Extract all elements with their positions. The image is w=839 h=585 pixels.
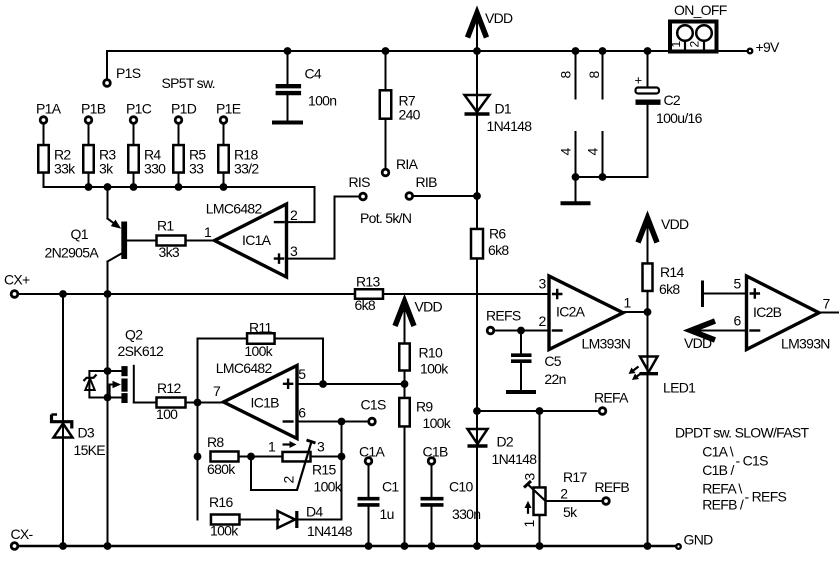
wire IC2A output xyxy=(623,311,648,313)
svg-text:REFB /: REFB / xyxy=(702,497,744,513)
svg-text:LMC6482: LMC6482 xyxy=(216,360,273,376)
svg-text:1N4148: 1N4148 xyxy=(492,451,538,467)
node R3 junction xyxy=(85,183,93,191)
wire R17 column upper xyxy=(539,411,541,488)
node R4 junction xyxy=(130,183,138,191)
svg-text:D1: D1 xyxy=(495,100,512,116)
resistor R16 100k xyxy=(211,515,240,525)
svg-text:3: 3 xyxy=(317,439,325,455)
wire R9 to rail xyxy=(404,427,406,547)
svg-text:1u: 1u xyxy=(380,506,394,522)
wire C1B to C10 xyxy=(431,465,433,497)
resistor R2 xyxy=(38,145,49,173)
resistor R9 100k xyxy=(399,398,410,427)
wire REFS to IC2A pin2 xyxy=(495,330,549,332)
svg-text:33/2: 33/2 xyxy=(234,161,259,177)
svg-text:3: 3 xyxy=(522,473,538,481)
svg-text:22n: 22n xyxy=(544,371,565,387)
ground symbol near C2 xyxy=(561,201,591,205)
wire R5 to bus xyxy=(178,173,180,188)
svg-text:SP5T sw.: SP5T sw. xyxy=(162,75,215,91)
svg-text:LMC6482: LMC6482 xyxy=(206,200,263,216)
svg-text:IC1B: IC1B xyxy=(251,394,280,410)
svg-text:6: 6 xyxy=(298,405,306,421)
svg-text:3k3: 3k3 xyxy=(159,244,180,260)
svg-text:CX-: CX- xyxy=(11,526,34,542)
svg-text:C5: C5 xyxy=(544,353,561,369)
wire P1B to R3 xyxy=(88,124,90,145)
terminal P1B xyxy=(85,117,92,124)
resistor R14 6k8 xyxy=(643,263,653,291)
wire top VDD bus y=51 xyxy=(107,50,670,52)
node Q2 drain xyxy=(104,367,112,375)
svg-text:R15: R15 xyxy=(312,462,336,478)
potentiometer R15 100k xyxy=(283,440,316,490)
wire R6 to REFA node xyxy=(476,259,478,412)
wire pin4 stub A xyxy=(575,132,577,177)
svg-text:LM393N: LM393N xyxy=(582,336,631,352)
wire pin4 stub B xyxy=(602,132,604,177)
ground symbol C5 xyxy=(506,390,536,394)
wire R4 to bus xyxy=(133,173,135,188)
wire bus to C2 xyxy=(647,51,649,88)
wire R15 right xyxy=(311,456,342,458)
terminal GND xyxy=(676,544,681,549)
wire IC2B output to edge xyxy=(819,312,839,314)
resistor R11 100k xyxy=(247,333,274,344)
terminal P1E xyxy=(220,117,227,124)
svg-text:GND: GND xyxy=(684,532,714,548)
svg-text:680k: 680k xyxy=(207,461,236,477)
wire RIB to D1 column xyxy=(414,195,478,197)
terminal REFB xyxy=(603,498,610,505)
wire ground row y=177 xyxy=(576,176,648,178)
svg-text:VDD: VDD xyxy=(684,335,712,351)
svg-text:P1B: P1B xyxy=(81,101,106,117)
node pin5/R10-R9 xyxy=(401,380,409,388)
wire IC2B pin5 with stub xyxy=(703,281,747,308)
svg-text:1N4148: 1N4148 xyxy=(487,118,533,134)
svg-text:2: 2 xyxy=(560,486,568,502)
resistor R8 680k xyxy=(211,452,239,462)
zener protection diode of Q2 xyxy=(84,371,108,398)
resistor R1 3k3 xyxy=(157,236,186,246)
svg-text:5k: 5k xyxy=(563,504,578,520)
wire bus to C4 xyxy=(287,51,289,84)
resistor R4 xyxy=(128,145,139,173)
node IC2A output junction xyxy=(644,308,652,316)
svg-text:IC1A: IC1A xyxy=(242,232,272,248)
svg-text:RIA: RIA xyxy=(396,156,419,172)
wire C1S column down xyxy=(341,422,343,520)
arrow adjust R15 xyxy=(283,441,297,448)
svg-text:1: 1 xyxy=(268,439,276,455)
LED LED1 xyxy=(640,357,659,374)
power VDD arrow (R14) xyxy=(638,218,657,243)
wire bus to R7 xyxy=(385,51,387,90)
wire D2 column to rail xyxy=(476,411,478,546)
svg-text:3: 3 xyxy=(290,243,298,259)
svg-text:2N2905A: 2N2905A xyxy=(45,245,100,261)
capacitor C5 22n xyxy=(511,355,532,361)
node VDD bus junction xyxy=(473,47,481,55)
diode D4 1N4148 xyxy=(278,511,297,528)
svg-text:RIS: RIS xyxy=(349,174,371,190)
svg-text:1: 1 xyxy=(521,520,537,528)
svg-text:100k: 100k xyxy=(210,523,239,539)
svg-text:1: 1 xyxy=(623,295,631,311)
wire R11 right to pin5 node xyxy=(275,339,324,385)
terminal CX+ xyxy=(11,291,18,298)
svg-text:LM393N: LM393N xyxy=(781,336,830,352)
node rail junction C1 xyxy=(365,542,373,550)
node rail junction R17 xyxy=(536,542,544,550)
node R17 branch xyxy=(536,407,544,415)
svg-text:P1E: P1E xyxy=(216,101,241,117)
wire IC1A pin3 to RIS xyxy=(287,197,359,259)
svg-text:- REFS: - REFS xyxy=(745,488,787,504)
svg-text:7: 7 xyxy=(213,383,221,399)
node C2 top xyxy=(644,47,652,55)
node pin7 feedback junction xyxy=(194,399,202,407)
svg-text:R13: R13 xyxy=(356,273,380,289)
svg-text:100k: 100k xyxy=(244,343,273,359)
node rail junction R9 xyxy=(401,542,409,550)
node ground row A xyxy=(572,173,580,181)
node ground row B xyxy=(599,173,607,181)
node R15/C1S column xyxy=(338,453,346,461)
wire R16 to D4 xyxy=(240,519,280,521)
terminal CX- xyxy=(11,543,18,550)
wire C5 to ground xyxy=(520,363,522,390)
svg-text:100k: 100k xyxy=(314,479,343,495)
wire pin8 stub A xyxy=(575,51,577,99)
wire D3 column xyxy=(62,294,64,546)
arrow adjust R17 xyxy=(525,501,532,514)
LED1 emission arrows xyxy=(629,367,643,381)
node rail junction D2 xyxy=(473,542,481,550)
wire P1D to R5 xyxy=(178,124,180,145)
node R18 junction xyxy=(220,183,228,191)
svg-text:4: 4 xyxy=(585,148,601,156)
svg-text:5: 5 xyxy=(733,276,741,292)
svg-text:P1S: P1S xyxy=(116,65,141,81)
svg-text:R10: R10 xyxy=(419,345,443,361)
wire P1E to R18 xyxy=(223,124,225,145)
wire D1 column to R6 xyxy=(476,196,478,229)
svg-text:P1A: P1A xyxy=(36,101,62,117)
capacitor C1 1u xyxy=(358,499,380,505)
svg-text:2: 2 xyxy=(688,40,702,47)
node Q1 emitter junction xyxy=(104,183,112,191)
svg-text:15KE: 15KE xyxy=(74,442,106,458)
svg-text:D3: D3 xyxy=(78,425,95,441)
svg-text:2: 2 xyxy=(280,476,296,484)
wire C5 top xyxy=(520,331,522,354)
svg-text:R8: R8 xyxy=(207,434,224,450)
node rail junction C10 xyxy=(428,542,436,550)
diode D1 1N4148 xyxy=(465,95,490,112)
node R8 left junction xyxy=(194,453,202,461)
wire R13 to IC2A pin3 xyxy=(383,293,549,295)
wire R17 wiper to REFB xyxy=(546,500,602,502)
wire Q2 gate to R12 xyxy=(134,402,157,404)
node REFA junction on D1-D2 column xyxy=(473,407,481,415)
svg-text:IC2A: IC2A xyxy=(556,304,586,320)
wire R11 left xyxy=(198,338,248,340)
svg-text:+: + xyxy=(635,73,642,88)
terminal RIS xyxy=(360,193,367,200)
svg-text:330: 330 xyxy=(144,161,166,177)
svg-text:Pot. 5k/N: Pot. 5k/N xyxy=(360,210,411,226)
wire from ON_OFF switch to +9V terminal xyxy=(717,50,747,52)
resistor R18 xyxy=(218,145,229,173)
diode D2 1N4148 xyxy=(468,429,488,444)
wire Q1 base to R1 xyxy=(127,240,157,242)
node C5 junction xyxy=(517,327,525,335)
svg-text:R1: R1 xyxy=(157,218,174,234)
svg-text:6k8: 6k8 xyxy=(355,297,376,313)
wire C1A to C1 xyxy=(368,465,370,497)
resistor R13 6k8 xyxy=(355,289,383,299)
power VDD arrow (R10) xyxy=(395,302,414,327)
terminal C1A xyxy=(365,458,372,465)
wire R2 to bus xyxy=(43,173,45,188)
capacitor C2 100u/16 electrolytic xyxy=(635,73,661,103)
diode D3 15KE xyxy=(52,415,73,438)
svg-text:6k8: 6k8 xyxy=(488,242,509,258)
svg-text:7: 7 xyxy=(822,296,830,312)
svg-text:REFS: REFS xyxy=(486,308,521,324)
svg-text:100n: 100n xyxy=(308,92,336,108)
node rail junction D3 xyxy=(59,542,67,550)
terminal REFA xyxy=(599,408,606,415)
svg-text:R16: R16 xyxy=(209,494,233,510)
svg-text:33k: 33k xyxy=(54,161,76,177)
svg-text:240: 240 xyxy=(399,107,421,123)
ground C4 xyxy=(272,121,303,125)
node pin8 stub A xyxy=(572,47,580,55)
node rail junction Q2 column xyxy=(104,542,112,550)
resistor R12 100 xyxy=(157,398,186,408)
svg-text:DPDT sw. SLOW/FAST: DPDT sw. SLOW/FAST xyxy=(675,425,810,441)
svg-text:C1: C1 xyxy=(382,479,399,495)
node R5 junction xyxy=(175,183,183,191)
wire CX+ line to R13 xyxy=(19,293,355,295)
svg-text:C2: C2 xyxy=(664,92,681,108)
wire IC1B pin5 line xyxy=(297,383,405,385)
svg-text:VDD: VDD xyxy=(415,299,443,315)
wire R7 to RIA xyxy=(385,119,387,169)
node RIB junction xyxy=(473,192,481,200)
node R7 top xyxy=(382,47,390,55)
svg-text:1: 1 xyxy=(204,224,212,240)
power VDD arrow (top) xyxy=(468,13,487,38)
wire Q2 column xyxy=(107,294,109,546)
svg-text:1N4148: 1N4148 xyxy=(307,523,353,539)
resistor R5 xyxy=(173,145,184,173)
connector ON_OFF switch xyxy=(670,22,717,52)
terminal C1S xyxy=(369,418,376,425)
svg-text:CX+: CX+ xyxy=(4,272,30,288)
node pin5/R11 xyxy=(319,380,327,388)
terminal P1D xyxy=(175,117,182,124)
terminal C1B xyxy=(428,458,435,465)
svg-text:R11: R11 xyxy=(249,319,272,335)
svg-text:2: 2 xyxy=(290,207,298,223)
terminal +9V xyxy=(748,49,753,54)
terminal P1C xyxy=(130,117,137,124)
svg-text:REFB: REFB xyxy=(595,479,630,495)
op-amp IC2A LM393N xyxy=(549,276,623,350)
transistor Q1 2N2905A xyxy=(108,187,128,294)
svg-text:+9V: +9V xyxy=(756,39,781,55)
svg-text:33: 33 xyxy=(189,161,204,177)
svg-text:4: 4 xyxy=(558,148,574,156)
op-amp IC2B LM393N xyxy=(747,276,820,350)
svg-text:REFA: REFA xyxy=(594,390,629,406)
svg-text:P1C: P1C xyxy=(126,101,152,117)
svg-text:6: 6 xyxy=(733,313,741,329)
wire resistor bus y=187 xyxy=(44,186,315,188)
wire C2 to ground row xyxy=(647,105,649,177)
svg-text:ON_OFF: ON_OFF xyxy=(674,2,727,18)
wire D4 to C1S column xyxy=(298,519,342,521)
wire R12 to IC1B pin7 xyxy=(186,402,224,404)
svg-text:8: 8 xyxy=(586,71,602,79)
svg-text:100k: 100k xyxy=(420,361,449,377)
svg-text:Q2: Q2 xyxy=(125,327,143,343)
capacitor C10 330n xyxy=(421,499,444,505)
resistor R3 xyxy=(83,145,94,173)
svg-text:C1S: C1S xyxy=(361,397,386,413)
svg-text:100k: 100k xyxy=(423,415,452,431)
wire R8 right xyxy=(239,456,283,458)
svg-text:VDD: VDD xyxy=(661,216,689,232)
wire R10 to R9 xyxy=(404,371,406,399)
svg-text:C1A \: C1A \ xyxy=(702,444,734,460)
wire R14 to LED1 xyxy=(647,291,649,546)
svg-text:2: 2 xyxy=(538,313,546,329)
svg-text:Q1: Q1 xyxy=(71,226,89,242)
wire R17 bottom to rail xyxy=(539,515,541,546)
label DPDT sw. SLOW/FAST note xyxy=(675,425,810,513)
resistor R10 100k xyxy=(399,344,410,371)
wire C10 to rail xyxy=(431,507,433,547)
wire R3 to bus xyxy=(88,173,90,188)
wire R18 to bus xyxy=(223,173,225,188)
potentiometer R17 5k xyxy=(524,481,546,515)
svg-text:LED1: LED1 xyxy=(663,380,696,396)
node D3 branch xyxy=(59,290,67,298)
terminal REFS xyxy=(487,327,494,334)
svg-text:R6: R6 xyxy=(489,226,506,242)
svg-text:2SK612: 2SK612 xyxy=(118,343,165,359)
svg-text:R12: R12 xyxy=(157,380,181,396)
power VDD arrow (IC2B pin6, pointing left) xyxy=(691,321,747,340)
transistor Q2 2SK612 xyxy=(108,366,134,403)
wire P1C to R4 xyxy=(133,124,135,145)
svg-text:D4: D4 xyxy=(306,504,323,520)
terminal RIA xyxy=(382,169,389,176)
svg-text:C4: C4 xyxy=(305,66,322,82)
wire R15 wiper to node xyxy=(251,457,297,491)
svg-text:R17: R17 xyxy=(563,469,587,485)
wire pin8 stub B xyxy=(602,51,604,99)
svg-text:REFA \: REFA \ xyxy=(702,481,742,497)
wire IC1A pin2 to resistor bus xyxy=(287,187,315,222)
op-amp IC1B LMC6482 xyxy=(224,366,298,439)
terminal RIB xyxy=(406,193,413,200)
resistor R6 6k8 xyxy=(471,229,483,259)
svg-text:VDD: VDD xyxy=(485,10,513,26)
wire feedback column x=197 xyxy=(197,339,199,520)
wire P1A to R2 xyxy=(43,124,45,145)
terminal P1A xyxy=(40,117,47,124)
svg-text:5: 5 xyxy=(298,366,306,382)
wire D1 column upper xyxy=(476,51,478,196)
svg-text:C1A: C1A xyxy=(359,443,385,459)
svg-text:IC2B: IC2B xyxy=(753,304,782,320)
svg-text:1: 1 xyxy=(669,40,683,47)
wire IC1B pin6 to C1S xyxy=(297,421,368,423)
svg-text:100u/16: 100u/16 xyxy=(656,110,703,126)
resistor R7 240 xyxy=(380,90,392,118)
svg-text:3k: 3k xyxy=(99,161,114,177)
node rail junction LED1 xyxy=(644,542,652,550)
svg-text:P1D: P1D xyxy=(171,101,197,117)
svg-text:- C1S: - C1S xyxy=(736,452,769,468)
node Q2 source xyxy=(104,394,112,402)
svg-text:8: 8 xyxy=(558,71,574,79)
wire P1S riser xyxy=(106,51,108,79)
wire C1 to rail xyxy=(368,507,370,547)
wire stub to ground symbol xyxy=(575,177,577,201)
svg-text:RIB: RIB xyxy=(416,174,438,190)
svg-text:D2: D2 xyxy=(497,434,514,450)
svg-text:C1B: C1B xyxy=(423,443,448,459)
node pin8 stub B xyxy=(599,47,607,55)
node C4 top xyxy=(284,47,292,55)
node R8/R15 wiper junction xyxy=(247,453,255,461)
node pin6 junction xyxy=(338,418,346,426)
svg-text:C1B /: C1B / xyxy=(702,462,734,478)
terminal P1S xyxy=(104,80,111,87)
capacitor C4 100n xyxy=(276,86,302,93)
wire bottom rail xyxy=(19,545,675,548)
wire REFA row xyxy=(477,410,598,412)
svg-text:R14: R14 xyxy=(660,264,684,280)
node Q1 collector junction xyxy=(104,290,112,298)
svg-text:R9: R9 xyxy=(416,399,433,415)
svg-text:6k8: 6k8 xyxy=(659,281,680,297)
wire C4 to ground xyxy=(287,95,289,120)
wire R1 to IC1A output xyxy=(186,240,215,242)
op-amp IC1A LMC6482 xyxy=(215,204,287,277)
svg-text:C10: C10 xyxy=(449,479,473,495)
svg-text:100: 100 xyxy=(156,406,178,422)
svg-text:3: 3 xyxy=(538,276,546,292)
